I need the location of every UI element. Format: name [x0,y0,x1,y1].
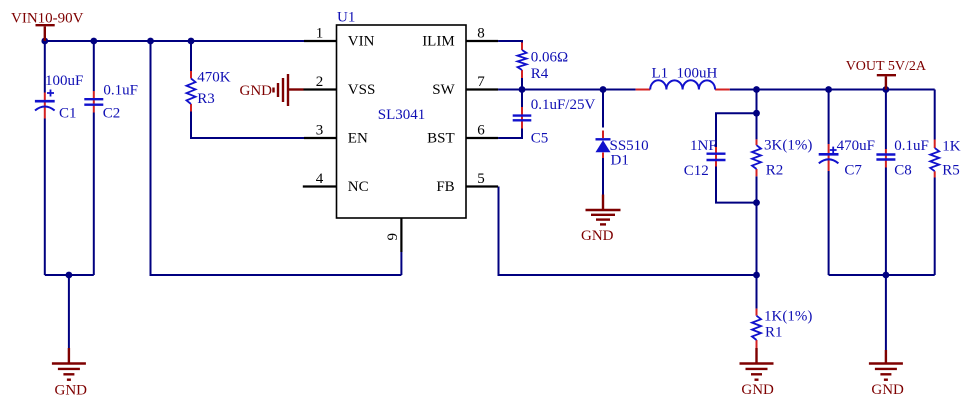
svg-text:3K(1%): 3K(1%) [764,138,812,154]
svg-text:7: 7 [477,74,485,90]
svg-text:1K: 1K [942,139,961,155]
svg-text:1NF: 1NF [690,138,717,154]
svg-text:U1: U1 [337,9,355,25]
svg-text:C2: C2 [103,106,121,122]
svg-text:GND: GND [240,83,273,99]
svg-text:R2: R2 [766,162,784,178]
svg-text:100uH: 100uH [677,66,718,82]
svg-text:C5: C5 [531,131,549,147]
svg-text:NC: NC [348,179,369,195]
svg-text:1: 1 [316,26,324,42]
svg-text:GND: GND [581,228,614,244]
svg-text:SL3041: SL3041 [378,107,426,123]
svg-text:D1: D1 [611,152,629,168]
svg-text:R4: R4 [531,66,549,82]
svg-text:VOUT 5V/2A: VOUT 5V/2A [846,59,927,74]
svg-text:GND: GND [871,382,904,398]
svg-text:0.06Ω: 0.06Ω [531,50,568,66]
svg-text:VIN10-90V: VIN10-90V [11,10,84,26]
svg-text:0.1uF: 0.1uF [894,138,929,154]
svg-text:4: 4 [316,171,324,187]
svg-text:0.1uF: 0.1uF [103,82,138,98]
svg-text:470K: 470K [197,70,231,86]
svg-text:R3: R3 [197,91,215,107]
svg-text:100uF: 100uF [45,73,83,89]
svg-text:FB: FB [436,179,454,195]
svg-text:2: 2 [316,74,324,90]
svg-text:1K(1%): 1K(1%) [764,309,812,325]
svg-text:BST: BST [427,131,455,147]
svg-text:C7: C7 [844,163,862,179]
svg-text:C12: C12 [684,163,709,179]
svg-text:VIN: VIN [348,34,375,50]
svg-text:0.1uF/25V: 0.1uF/25V [531,97,596,113]
svg-text:3: 3 [316,123,324,139]
svg-text:6: 6 [477,123,485,139]
svg-text:C1: C1 [59,106,77,122]
svg-text:8: 8 [477,26,485,42]
svg-text:9: 9 [385,233,401,241]
svg-text:ILIM: ILIM [422,34,455,50]
svg-text:GND: GND [741,382,774,398]
svg-text:L1: L1 [652,66,669,82]
svg-text:R1: R1 [765,325,783,341]
svg-text:SW: SW [432,82,455,98]
svg-text:R5: R5 [942,163,960,179]
svg-text:GND: GND [55,383,88,399]
svg-text:EN: EN [348,131,368,147]
svg-text:VSS: VSS [348,82,376,98]
svg-text:470uF: 470uF [837,138,875,154]
svg-text:5: 5 [477,171,485,187]
svg-text:C8: C8 [894,163,912,179]
